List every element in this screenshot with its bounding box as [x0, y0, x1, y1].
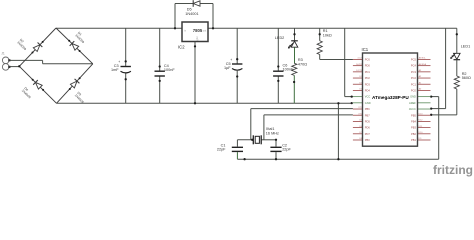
svg-text:PC3: PC3: [411, 70, 417, 74]
svg-text:ATmega328P-PU: ATmega328P-PU: [372, 95, 409, 100]
svg-text:PD4: PD4: [365, 89, 371, 93]
svg-text:PC1: PC1: [411, 82, 417, 86]
svg-text:PD6: PD6: [365, 126, 371, 130]
svg-text:IC2: IC2: [178, 44, 185, 49]
svg-text:560Ω: 560Ω: [462, 76, 471, 80]
svg-text:1N4001: 1N4001: [185, 12, 198, 16]
svg-text:LED2: LED2: [275, 36, 285, 40]
svg-text:10kΩ: 10kΩ: [323, 34, 332, 38]
svg-text:PB2: PB2: [411, 132, 416, 136]
svg-text:D5: D5: [187, 7, 192, 11]
svg-text:PB7: PB7: [365, 113, 370, 117]
svg-text:A4/SDA: A4/SDA: [419, 63, 427, 66]
svg-text:470Ω: 470Ω: [298, 63, 307, 67]
svg-text:PB0: PB0: [365, 138, 370, 142]
svg-text:AREF: AREF: [409, 101, 416, 105]
svg-text:1N4009: 1N4009: [74, 33, 85, 44]
svg-text:PC2: PC2: [411, 76, 417, 80]
svg-text:VCC: VCC: [365, 95, 371, 99]
svg-text:PC4: PC4: [411, 64, 417, 68]
svg-text:7805: 7805: [193, 28, 203, 33]
svg-text:PB6: PB6: [365, 107, 370, 111]
svg-text:D0/RX: D0/RX: [356, 64, 363, 66]
svg-text:IC1: IC1: [362, 47, 369, 52]
svg-text:PD3: PD3: [365, 82, 371, 86]
svg-text:1N4009: 1N4009: [21, 89, 32, 100]
svg-text:PB3: PB3: [411, 126, 416, 130]
svg-text:PC6: PC6: [365, 58, 371, 62]
svg-text:16 MHz: 16 MHz: [266, 132, 279, 136]
svg-text:AVCC: AVCC: [409, 107, 416, 111]
svg-text:PD2: PD2: [365, 76, 371, 80]
svg-text:gnd: gnd: [196, 36, 199, 41]
svg-text:fritzing: fritzing: [433, 163, 473, 177]
svg-text:PB4: PB4: [411, 120, 416, 124]
svg-text:PD7: PD7: [365, 132, 371, 136]
svg-text:PC0: PC0: [411, 89, 417, 93]
svg-text:PB5: PB5: [411, 113, 416, 117]
svg-text:100nF: 100nF: [164, 68, 175, 72]
svg-text:GND: GND: [410, 95, 416, 99]
svg-text:22pF: 22pF: [282, 148, 291, 152]
svg-text:PB1: PB1: [411, 138, 416, 142]
svg-text:PD1: PD1: [365, 70, 371, 74]
svg-text:1N4009: 1N4009: [16, 40, 27, 51]
svg-text:+: +: [230, 58, 232, 62]
svg-text:1µF: 1µF: [224, 66, 231, 70]
svg-text:1mF: 1mF: [111, 68, 119, 72]
svg-text:PD5: PD5: [365, 120, 371, 124]
svg-text:A5/SCL: A5/SCL: [419, 57, 427, 60]
svg-text:1N4009: 1N4009: [74, 93, 85, 104]
svg-text:+: +: [118, 60, 120, 64]
svg-text:LED1: LED1: [461, 45, 471, 49]
svg-text:PC5: PC5: [411, 58, 417, 62]
svg-text:GND: GND: [365, 101, 371, 105]
svg-text:PD0: PD0: [365, 64, 371, 68]
svg-text:22pF: 22pF: [217, 148, 226, 152]
svg-text:J1: J1: [1, 52, 5, 56]
svg-text:out: out: [203, 29, 207, 32]
